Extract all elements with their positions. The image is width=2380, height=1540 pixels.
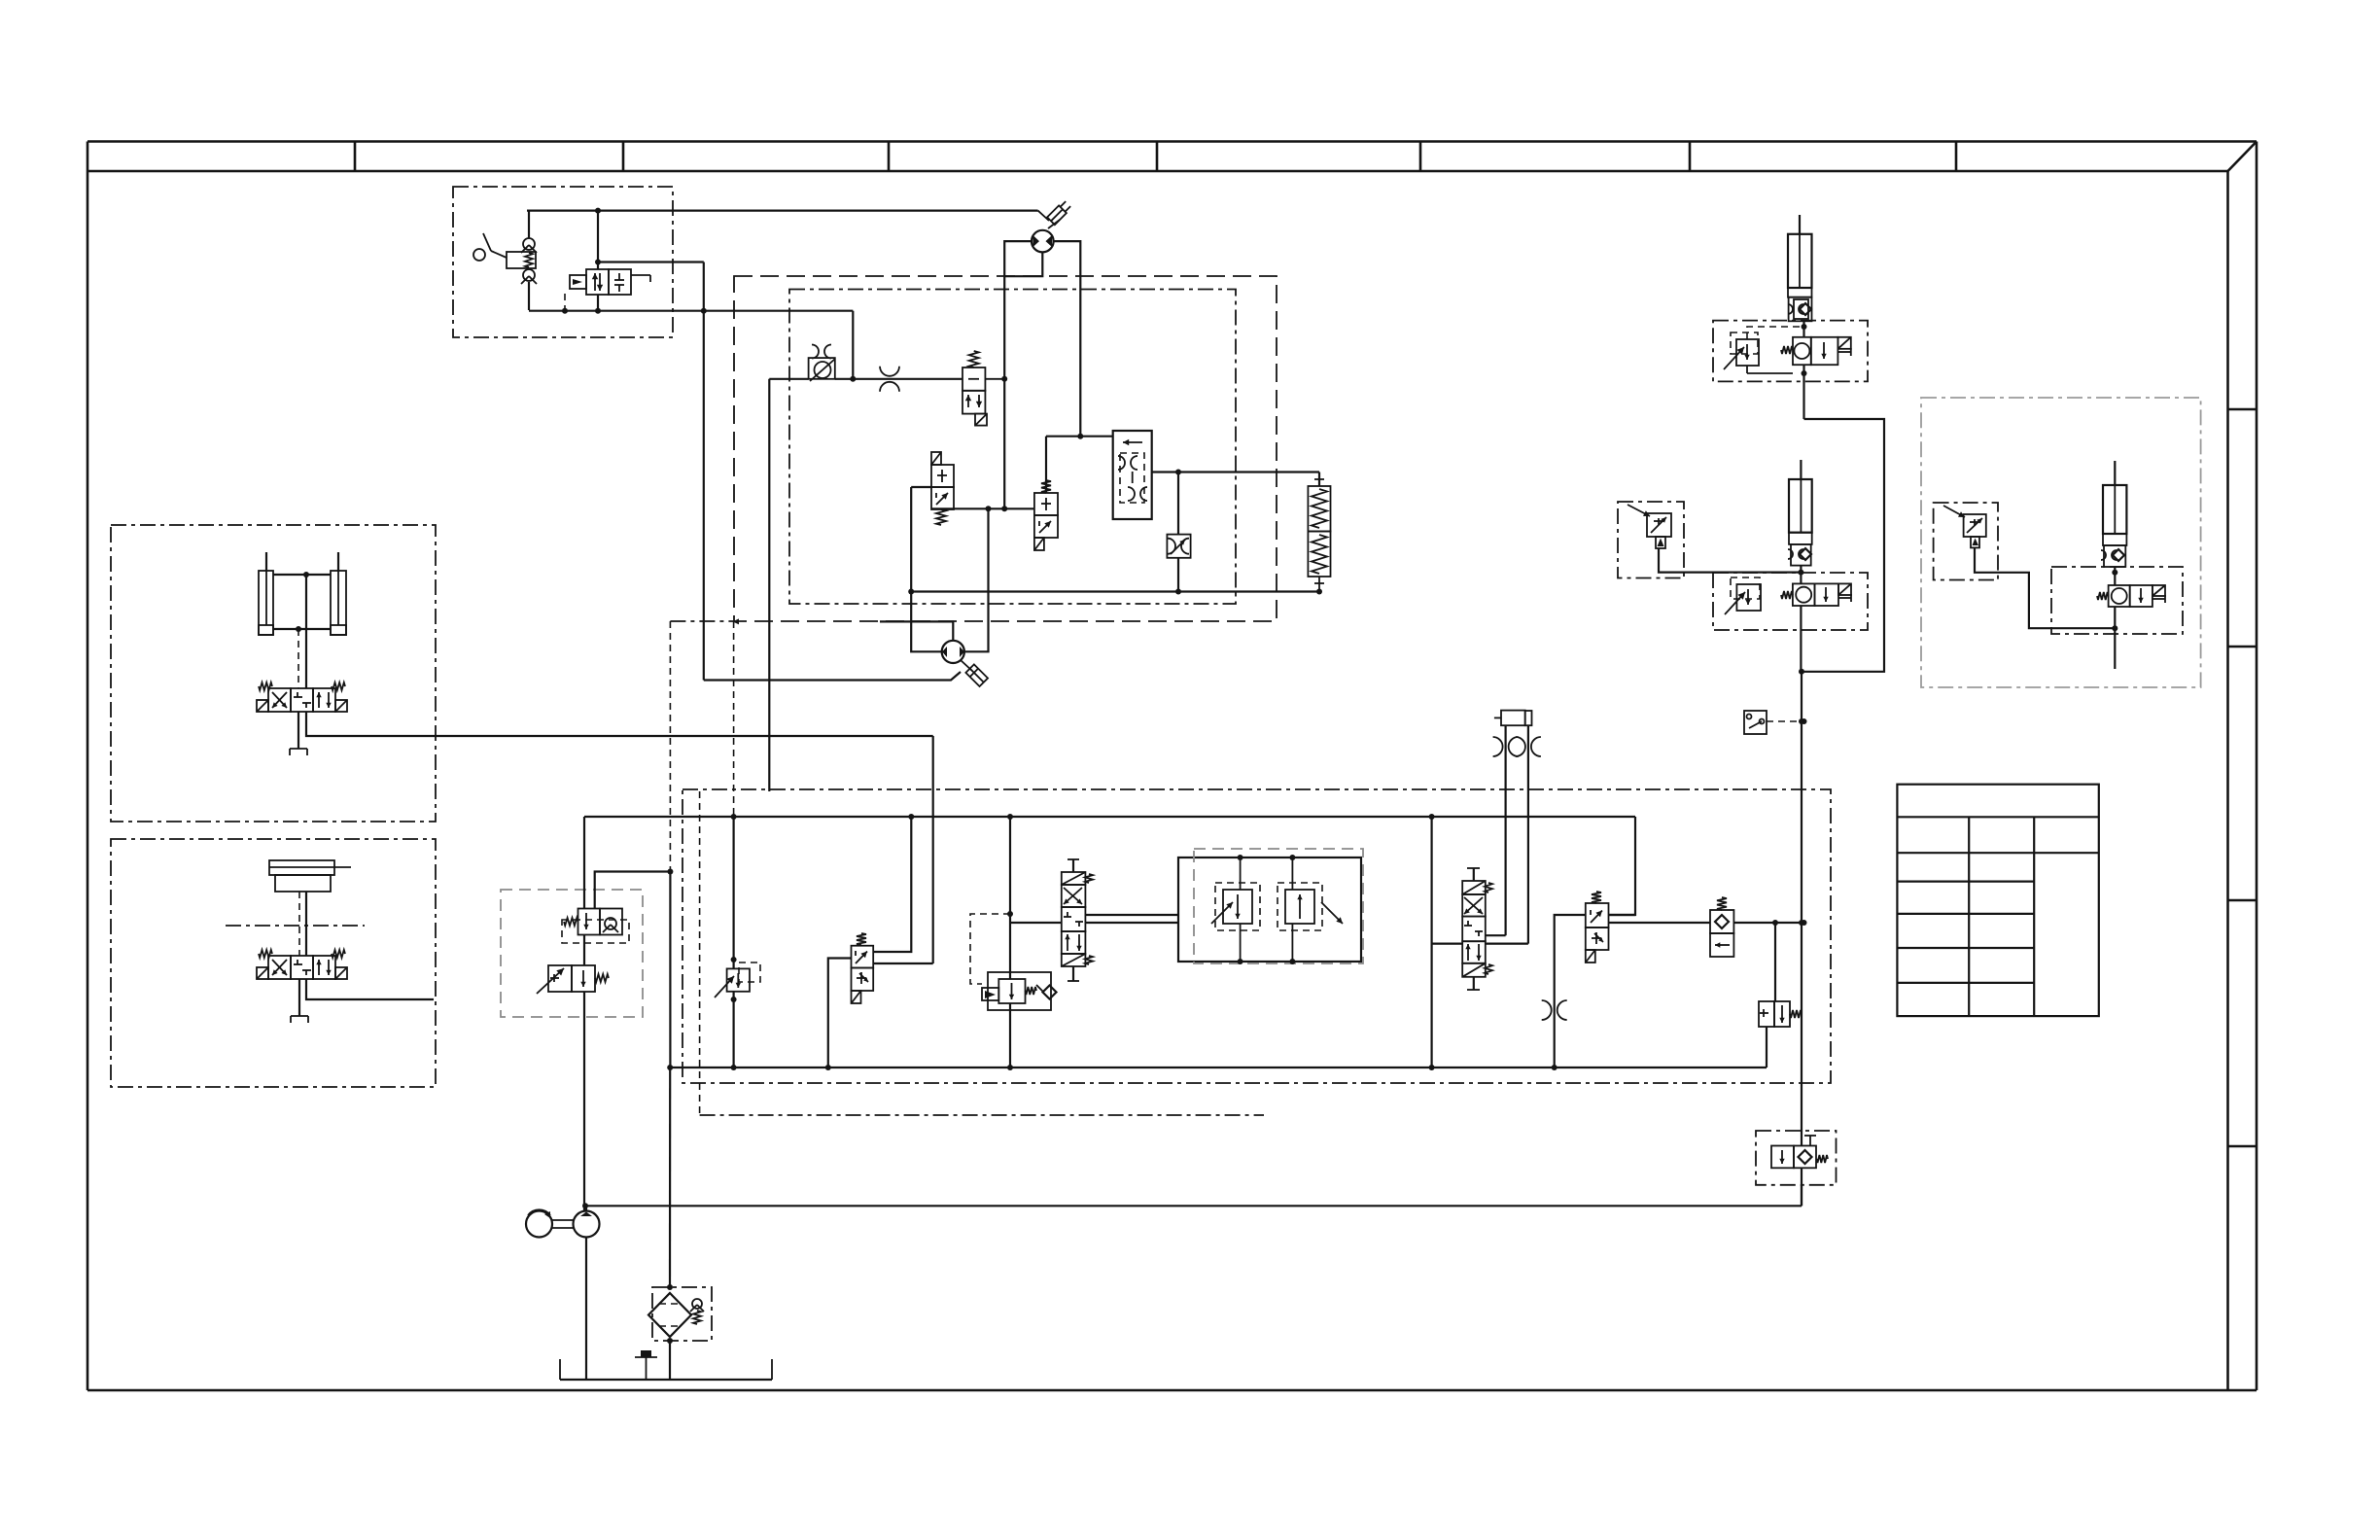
- wire reducer G3 out: [1975, 547, 2115, 628]
- dashed enclosure pilot-supply unit: [453, 187, 673, 337]
- wire: [597, 211, 599, 269]
- breather BR1: [635, 1356, 657, 1358]
- wire return drop: [669, 872, 671, 1068]
- hydraulic motor M1: [1032, 230, 1054, 253]
- relief valve R9: [1759, 1001, 1774, 1027]
- throttle valve TV1: [1167, 535, 1190, 558]
- wire: [873, 962, 933, 964]
- wire pilot bus: [911, 590, 1319, 592]
- wire main pressure line: [584, 816, 1635, 818]
- pump P2 variable displacement: [942, 641, 964, 663]
- cylinder CYL3: [2103, 485, 2126, 534]
- brake cylinder left: [259, 571, 273, 635]
- velocity fuse F1: [1789, 297, 1812, 322]
- wire: [1486, 942, 1528, 944]
- pilot valve PRVA 3/2: [857, 933, 866, 945]
- electric motor EM1: [526, 1211, 552, 1238]
- wire pilot valve drain: [529, 310, 853, 312]
- wire filter to tank: [669, 1341, 671, 1380]
- rod: [1799, 215, 1801, 234]
- dashed pilot line: [970, 914, 1010, 984]
- wire relief R9 feed: [1774, 923, 1776, 1001]
- wire: [1609, 922, 1711, 924]
- pressure switch PS1: [1744, 711, 1767, 734]
- pump P1 gear pump: [574, 1211, 600, 1238]
- wire compensator out: [1152, 471, 1319, 472]
- dashed enclosure reducer G3: [1934, 503, 1998, 580]
- wire: [1609, 817, 1636, 915]
- wire: [1085, 914, 1178, 916]
- wire: [828, 959, 852, 1068]
- dash-dot stub: [670, 620, 734, 622]
- wire: [305, 575, 307, 688]
- wire: [1009, 817, 1011, 979]
- wire: [873, 817, 911, 952]
- dashed bracket hose break 1: [1713, 321, 1868, 382]
- proportional valve DCV4 4/3: [1473, 868, 1475, 881]
- counterbalance check CBV1: [1781, 346, 1793, 354]
- wire: [1177, 558, 1179, 592]
- gray dashed enclosure brake valve unit: [501, 890, 643, 1017]
- wire work line to manifold: [306, 712, 933, 736]
- relief valve RV2: [1736, 584, 1761, 611]
- pilot valve PRVC 3/2: [1592, 892, 1601, 903]
- relief valve DRB-left: [1223, 890, 1252, 924]
- gas springs )( )(: [1493, 737, 1503, 756]
- wire: [585, 1206, 587, 1210]
- dashed enclosure winch control inner: [789, 290, 1236, 605]
- wire tank return bus: [670, 1067, 1767, 1068]
- wire: [1802, 321, 1804, 337]
- wire pump P2 control drain: [704, 672, 961, 681]
- wire brake pilot to manifold: [595, 872, 671, 909]
- wire: [932, 736, 934, 963]
- dashed pilot line: [1767, 720, 1804, 722]
- velocity fuse F3: [2104, 545, 2125, 567]
- counterbalance check CBV3: [2097, 592, 2109, 600]
- wire: [1085, 922, 1178, 924]
- restrictor OR2: [1542, 1000, 1552, 1020]
- wire pilot supply to swash actuator: [527, 210, 1038, 212]
- wire: [769, 378, 808, 380]
- wire: [1800, 606, 1802, 672]
- rod: [1800, 460, 1802, 479]
- pilot check valve CV2: [809, 358, 835, 379]
- wire: [265, 552, 267, 571]
- counterbalance check CBV2: [1781, 591, 1793, 599]
- pilot valve SV3 3/2: [1041, 480, 1051, 493]
- pressure compensator PC1: [1113, 431, 1152, 519]
- steering cylinder sensor SC1: [1501, 711, 1525, 726]
- dashed pilot: [1747, 327, 1804, 339]
- dashed enclosure main manifold: [682, 789, 1831, 1083]
- pilot valve PV1 solenoid: [570, 275, 586, 289]
- wire motor M1 right port: [1054, 241, 1081, 437]
- dashed stub: [699, 791, 701, 1115]
- velocity fuse F2: [1791, 544, 1811, 566]
- wire pump feed drop: [768, 379, 770, 791]
- wire: [1430, 817, 1432, 1067]
- wire: [703, 262, 705, 681]
- wire pump P1 suction: [585, 1238, 587, 1381]
- directional valve DCV2 4/3: [268, 956, 291, 979]
- wire: [1504, 725, 1506, 935]
- wire: [2114, 607, 2116, 669]
- parts table: [1897, 785, 2098, 1016]
- title strip cell dividers: [354, 142, 357, 172]
- wire: [835, 378, 962, 380]
- wire reducer out: [1659, 548, 1801, 573]
- shaft: [552, 1219, 574, 1221]
- relief valve RV1: [1736, 339, 1759, 366]
- pilot valve PV1: [586, 269, 609, 295]
- wire: [273, 628, 331, 630]
- dashed enclosure travel drive: [111, 525, 436, 822]
- wire brake riser: [583, 817, 585, 909]
- wire: [911, 486, 931, 488]
- accumulator spring unit ACC1: [1318, 472, 1320, 487]
- wire: [598, 261, 704, 262]
- solenoid valve SV1 2/2: [969, 351, 979, 367]
- right margin column dividers: [2228, 408, 2257, 411]
- motor M1 swash actuator: [1038, 211, 1049, 221]
- dashed pilot line: [669, 621, 671, 872]
- pilot valve SV2 3/2: [931, 452, 941, 465]
- wire: [2114, 567, 2116, 585]
- wire: [1003, 379, 1005, 509]
- wire: [305, 892, 307, 956]
- wire vertical to pump P2 right: [964, 508, 989, 651]
- wire loop around group2: [1804, 419, 1885, 672]
- pilot operated relief PRVB: [998, 979, 1025, 1003]
- wire: [1801, 1185, 1802, 1207]
- rod: [2114, 461, 2116, 485]
- wire: [273, 574, 331, 576]
- wire main riser: [1801, 672, 1802, 1131]
- pressure reducing valve BV2: [548, 965, 572, 992]
- shuttle check valve SH1: [1717, 897, 1727, 910]
- gray dashed enclosure option unit: [1921, 398, 2201, 687]
- wire: [1010, 922, 1062, 924]
- tank TK1: [559, 1359, 561, 1380]
- wire: [1486, 934, 1506, 936]
- wire: [1045, 437, 1047, 493]
- wire pump P2 case line: [880, 621, 953, 640]
- wire vertical to pump P2 left: [911, 487, 942, 651]
- check valve CA1: [1771, 1146, 1794, 1169]
- wire: [1432, 942, 1463, 944]
- pressure reducing valve RD3: [1964, 514, 1986, 537]
- dashed enclosure winch control outer: [734, 276, 1277, 621]
- wire compensator feed: [1046, 436, 1113, 437]
- dash-dot stub: [700, 1114, 1264, 1116]
- wire return to filter: [669, 1067, 671, 1287]
- wire tank stub: [297, 712, 299, 749]
- pilot relief PRVD: [727, 968, 750, 991]
- restrictor OR1: [880, 367, 899, 376]
- wire: [733, 621, 735, 817]
- solenoid valve BV1 2/2 with bypass check: [578, 909, 601, 935]
- wire: [1609, 914, 1636, 916]
- clamp cylinder CC1: [269, 860, 334, 875]
- wire: [1746, 366, 1748, 373]
- dual relief block DRB: [1178, 857, 1361, 962]
- wire clamp work line: [306, 979, 434, 999]
- border frame: [87, 140, 2257, 143]
- wire: [852, 311, 854, 379]
- dashed separator: [226, 925, 365, 927]
- dashed enclosure charge check unit: [1756, 1131, 1837, 1185]
- wire block internals: [1240, 924, 1242, 962]
- pump P2 swash actuator: [961, 660, 972, 671]
- dashed enclosure reducer G2: [1618, 502, 1684, 578]
- lever of hand pump HP1: [491, 251, 507, 258]
- relief valve DRB-right: [1285, 890, 1314, 924]
- wire: [1766, 1027, 1767, 1067]
- wire tank stub: [298, 979, 300, 1016]
- dashed bracket hose break 2: [1713, 573, 1868, 630]
- wire charge line: [585, 1205, 1802, 1207]
- wire motor M1 left port: [1004, 241, 1032, 379]
- wire: [1177, 472, 1179, 535]
- wire: [1527, 725, 1529, 943]
- tank symbol T2: [291, 1015, 308, 1017]
- wire: [297, 629, 299, 688]
- dashed bracket G3: [2051, 567, 2183, 634]
- directional valve DCV1 4/3: [268, 688, 291, 712]
- pressure reducing valve RD2: [1647, 513, 1671, 537]
- wire: [1800, 566, 1802, 584]
- wire: [1733, 922, 1803, 924]
- tank symbol T1: [290, 748, 307, 750]
- wire: [1555, 915, 1586, 1067]
- hand pump HP1: [528, 210, 530, 238]
- cylinder CYL2: [1789, 479, 1812, 533]
- filter FL1 with bypass: [652, 1287, 712, 1341]
- outline: [988, 972, 1051, 1010]
- cylinder CYL1: [1788, 234, 1812, 288]
- dashed enclosure clamp unit: [111, 839, 436, 1087]
- proportional valve DCV3 4/3: [1072, 859, 1074, 872]
- wire riser: [1802, 365, 1804, 419]
- wire motor M1 bottom port: [1004, 252, 1042, 276]
- wire: [931, 507, 1034, 509]
- brake cylinder right: [331, 571, 346, 635]
